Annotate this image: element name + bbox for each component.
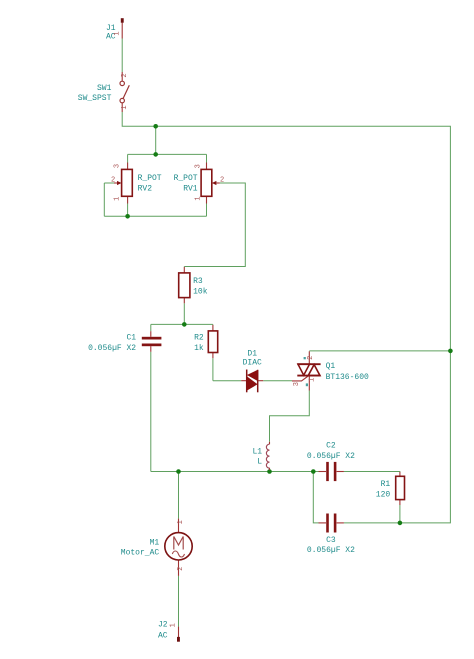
svg-text:SW_SPST: SW_SPST bbox=[78, 94, 112, 103]
svg-text:C3: C3 bbox=[326, 536, 336, 545]
svg-text:1: 1 bbox=[308, 378, 316, 382]
svg-text:R1: R1 bbox=[381, 480, 391, 489]
svg-text:D1: D1 bbox=[247, 350, 257, 359]
svg-text:3: 3 bbox=[293, 382, 301, 386]
svg-text:1: 1 bbox=[170, 623, 178, 627]
svg-text:1: 1 bbox=[114, 31, 122, 35]
svg-text:0.056µF X2: 0.056µF X2 bbox=[307, 452, 355, 461]
svg-text:J2: J2 bbox=[158, 620, 168, 629]
svg-text:2: 2 bbox=[177, 567, 185, 571]
svg-text:Q1: Q1 bbox=[326, 362, 336, 371]
svg-text:120: 120 bbox=[376, 490, 391, 499]
svg-text:R_POT: R_POT bbox=[174, 174, 198, 183]
svg-text:0.056µF X2: 0.056µF X2 bbox=[88, 344, 136, 353]
svg-text:3: 3 bbox=[194, 164, 202, 168]
svg-text:2: 2 bbox=[121, 73, 129, 77]
svg-text:AC: AC bbox=[158, 631, 168, 640]
svg-text:R3: R3 bbox=[193, 277, 203, 286]
svg-text:C1: C1 bbox=[126, 334, 136, 343]
svg-text:BT136-600: BT136-600 bbox=[326, 373, 369, 382]
svg-text:RV2: RV2 bbox=[138, 185, 153, 194]
svg-text:2: 2 bbox=[220, 177, 224, 185]
svg-text:2: 2 bbox=[307, 356, 315, 360]
svg-text:M1: M1 bbox=[150, 539, 160, 548]
svg-text:1: 1 bbox=[177, 520, 185, 524]
svg-text:L: L bbox=[257, 458, 262, 467]
svg-text:Motor_AC: Motor_AC bbox=[121, 549, 160, 558]
svg-text:C2: C2 bbox=[326, 442, 336, 451]
svg-text:0.056µF X2: 0.056µF X2 bbox=[307, 546, 355, 555]
svg-text:SW1: SW1 bbox=[97, 84, 112, 93]
svg-text:3: 3 bbox=[114, 164, 122, 168]
svg-text:1: 1 bbox=[194, 196, 202, 200]
svg-text:DIAC: DIAC bbox=[243, 358, 262, 367]
svg-text:L1: L1 bbox=[252, 447, 262, 456]
svg-text:R2: R2 bbox=[194, 334, 204, 343]
svg-text:10k: 10k bbox=[193, 288, 208, 297]
svg-text:1k: 1k bbox=[194, 344, 204, 353]
svg-text:R_POT: R_POT bbox=[138, 174, 162, 183]
svg-text:1: 1 bbox=[114, 197, 122, 201]
svg-text:1: 1 bbox=[121, 105, 129, 109]
svg-text:RV1: RV1 bbox=[183, 185, 198, 194]
svg-text:2: 2 bbox=[111, 177, 115, 185]
